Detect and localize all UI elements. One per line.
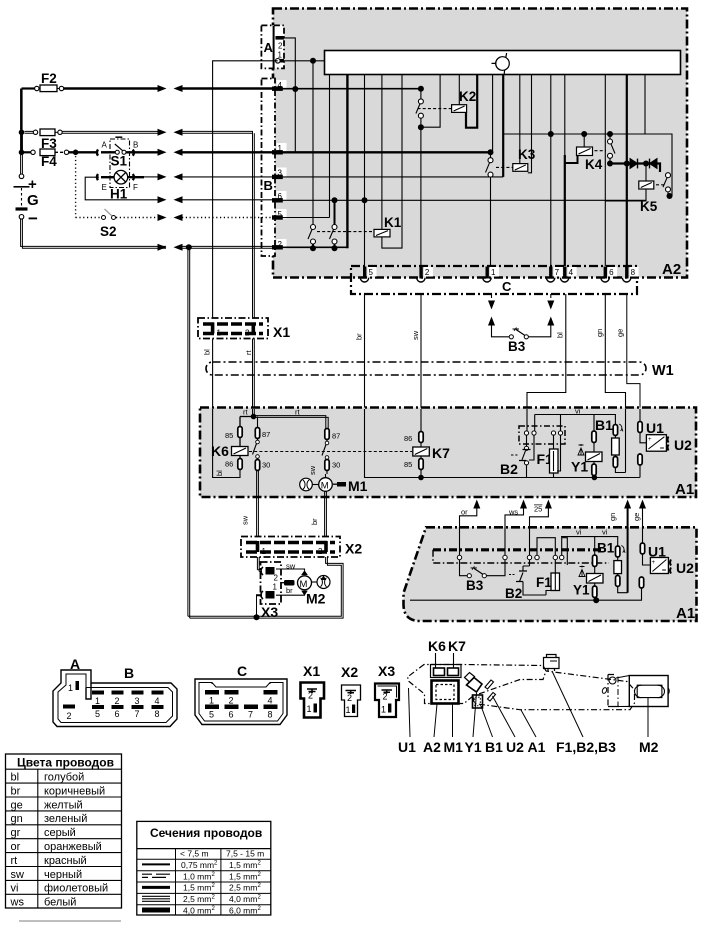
svg-text:7: 7 bbox=[135, 709, 140, 719]
svg-text:B: B bbox=[124, 665, 134, 681]
svg-text:2: 2 bbox=[308, 691, 313, 701]
wire r1 inside A2 (B4 row) bbox=[275, 88, 421, 90]
svg-text:Y1: Y1 bbox=[465, 739, 482, 755]
svg-text:2: 2 bbox=[274, 574, 279, 583]
K2 aux vertical bbox=[423, 75, 440, 128]
svg-text:G: G bbox=[27, 192, 39, 209]
pump M1 bbox=[300, 465, 368, 536]
svg-text:1: 1 bbox=[381, 705, 386, 715]
svg-text:br: br bbox=[355, 333, 364, 340]
internal rail (sedan A1) bbox=[433, 550, 609, 563]
wire A pin2 to r1 bbox=[275, 38, 295, 152]
S1 switch bbox=[97, 137, 158, 168]
ground bottom double line bbox=[188, 557, 343, 618]
svg-text:B3: B3 bbox=[508, 339, 526, 354]
svg-text:M: M bbox=[321, 481, 329, 492]
svg-text:2,5 mm: 2,5 mm bbox=[183, 894, 211, 904]
ECU block bbox=[432, 681, 459, 704]
relay K4 bbox=[577, 147, 593, 156]
diode 2 bbox=[650, 159, 658, 169]
fuse F1 (sedan) bbox=[536, 560, 560, 595]
svg-text:U2: U2 bbox=[676, 560, 694, 576]
relay K5 bbox=[644, 75, 646, 135]
fuse F4 bbox=[24, 149, 98, 169]
svg-text:4: 4 bbox=[155, 696, 160, 706]
wire r4 inside A2 (B3 row) bbox=[275, 176, 503, 178]
svg-text:красный: красный bbox=[44, 855, 87, 867]
svg-text:F1: F1 bbox=[536, 575, 552, 590]
Y1 shape bbox=[467, 678, 483, 693]
svg-text:1: 1 bbox=[346, 705, 351, 715]
connector face A/B bbox=[53, 656, 177, 727]
svg-text:2: 2 bbox=[67, 711, 72, 721]
connector C strip bbox=[351, 266, 637, 294]
svg-text:коричневый: коричневый bbox=[44, 785, 105, 797]
svg-text:B2: B2 bbox=[505, 586, 522, 601]
B1 shape bbox=[473, 695, 483, 708]
battery minus down and to r7 row bbox=[21, 219, 166, 248]
diagnostic symbol on bar bbox=[492, 53, 510, 74]
svg-text:4: 4 bbox=[569, 268, 574, 277]
svg-text:< 7,5 m: < 7,5 m bbox=[180, 849, 209, 859]
connector face X2 bbox=[341, 664, 361, 717]
svg-text:1: 1 bbox=[273, 583, 278, 592]
sensor B1 (sedan) bbox=[597, 541, 628, 593]
svg-text:белый: белый bbox=[44, 897, 76, 909]
bl wire from X1 to K6-86 bbox=[213, 409, 240, 478]
wire rt below X1 (double) bbox=[253, 339, 255, 417]
svg-text:gn: gn bbox=[608, 513, 617, 521]
transformer U1 / plug U2 bbox=[638, 409, 692, 478]
contact for M1 (driven with K7) bbox=[322, 429, 340, 475]
svg-text:X3: X3 bbox=[261, 604, 278, 620]
svg-text:4: 4 bbox=[268, 696, 273, 706]
svg-text:B1: B1 bbox=[485, 739, 503, 755]
br bottom row in A1 to K7 and Y1/U1 bbox=[365, 409, 640, 478]
svg-text:A: A bbox=[264, 40, 274, 55]
svg-text:K7: K7 bbox=[448, 638, 466, 654]
bracket outline bbox=[408, 665, 547, 704]
diode row bbox=[610, 164, 660, 173]
svg-text:85: 85 bbox=[225, 431, 233, 440]
switch S1 with lamp H1 boundary box bbox=[110, 139, 130, 188]
node r6 x364 bbox=[362, 197, 368, 203]
wire bl below X1 bbox=[212, 339, 214, 410]
K2 contact chain from r1 node to C pin2 bbox=[418, 86, 424, 92]
wire sections table bbox=[137, 821, 271, 915]
valve Y1 bbox=[571, 415, 602, 478]
diode 1 bbox=[630, 159, 638, 169]
svg-text:оранжевый: оранжевый bbox=[44, 841, 102, 853]
connector X1 bbox=[198, 318, 290, 340]
svg-text:X1: X1 bbox=[303, 663, 320, 679]
svg-text:U2: U2 bbox=[506, 739, 524, 755]
relay K7 bbox=[404, 409, 450, 478]
svg-text:F: F bbox=[133, 183, 138, 192]
C pins bbox=[363, 267, 639, 279]
sub connector in A1 (dash-dot) bbox=[519, 426, 565, 444]
svg-text:Цвета проводов: Цвета проводов bbox=[17, 756, 114, 770]
interlink arrows gn/ge thick bbox=[608, 500, 646, 593]
svg-text:B1: B1 bbox=[595, 417, 613, 433]
svg-text:B: B bbox=[264, 178, 273, 193]
svg-text:5: 5 bbox=[95, 709, 100, 719]
wire row r1 arrows bbox=[158, 85, 167, 92]
svg-text:1: 1 bbox=[217, 329, 222, 338]
svg-text:K7: K7 bbox=[432, 445, 450, 461]
svg-text:ge: ge bbox=[632, 513, 641, 521]
svg-text:B1: B1 bbox=[597, 541, 615, 556]
svg-text:8: 8 bbox=[631, 268, 636, 277]
wire row r6 arrows bbox=[158, 214, 167, 221]
svg-text:E: E bbox=[102, 183, 107, 192]
svg-text:фиолетовый: фиолетовый bbox=[44, 883, 108, 895]
svg-text:1,5 mm: 1,5 mm bbox=[183, 883, 211, 893]
svg-text:C: C bbox=[237, 663, 247, 679]
svg-text:U1: U1 bbox=[646, 420, 664, 436]
connector A (on A2 left border) bbox=[261, 25, 284, 68]
svg-text:vi: vi bbox=[576, 528, 582, 537]
U2 pointers bbox=[485, 680, 494, 689]
svg-text:6: 6 bbox=[115, 709, 120, 719]
svg-text:6,0 mm: 6,0 mm bbox=[229, 906, 257, 916]
vertical from A1row through B4row down to contact bbox=[312, 61, 314, 225]
fan motor M2 bbox=[276, 562, 330, 607]
wire sw from C2 down to A1 bbox=[420, 294, 422, 409]
B3 switch under C bbox=[488, 294, 554, 354]
svg-text:bl: bl bbox=[556, 332, 565, 338]
lamp H1 bbox=[97, 170, 144, 201]
svg-text:1: 1 bbox=[262, 547, 267, 556]
svg-text:sw: sw bbox=[241, 515, 250, 525]
vertical to C pin6 bbox=[604, 75, 606, 267]
svg-text:sw: sw bbox=[11, 869, 25, 881]
transformer U1 / plug U2 (sedan) bbox=[639, 543, 694, 595]
wire r5 inside A2 (B5 row) bbox=[275, 217, 329, 219]
svg-text:2: 2 bbox=[383, 692, 388, 702]
loops above rail right part bbox=[537, 538, 555, 555]
svg-text:A1: A1 bbox=[676, 605, 695, 622]
wire row r7 arrows bbox=[158, 244, 167, 251]
svg-text:gn: gn bbox=[595, 329, 604, 337]
wire r2 inside A2 (B2 row) bbox=[275, 246, 347, 248]
svg-text:sw: sw bbox=[308, 465, 317, 475]
svg-text:8: 8 bbox=[268, 710, 273, 720]
svg-text:K3: K3 bbox=[518, 147, 536, 162]
svg-text:K5: K5 bbox=[640, 199, 658, 214]
ground row (sedan) bbox=[410, 595, 642, 600]
wire row r5 arrows bbox=[158, 196, 167, 203]
svg-text:4,0 mm: 4,0 mm bbox=[229, 894, 257, 904]
rt feed row inside A1 bbox=[253, 409, 255, 416]
relay K6 with terminals 85/86 bbox=[211, 417, 248, 470]
svg-text:серый: серый bbox=[44, 827, 76, 839]
svg-text:M1: M1 bbox=[444, 739, 464, 755]
svg-text:vi: vi bbox=[11, 883, 19, 895]
svg-text:87: 87 bbox=[262, 430, 270, 439]
svg-text:6: 6 bbox=[609, 268, 614, 277]
svg-text:F1,B2,B3: F1,B2,B3 bbox=[556, 739, 616, 755]
wire ge from C8 down, jog right into A1 bbox=[627, 294, 640, 409]
svg-text:6: 6 bbox=[278, 192, 283, 201]
svg-text:S2: S2 bbox=[100, 224, 117, 239]
wire gn from C6 down, jog right into A1 bbox=[605, 294, 625, 409]
svg-text:X2: X2 bbox=[345, 541, 362, 557]
svg-text:86: 86 bbox=[225, 460, 233, 469]
connector X3 bbox=[257, 557, 282, 620]
wire bl from C4 down, jog left into A1 bbox=[527, 294, 566, 409]
svg-text:1,5 mm: 1,5 mm bbox=[229, 871, 257, 881]
svg-text:K1: K1 bbox=[384, 215, 402, 230]
C pin bumps on gray lower edge bbox=[360, 278, 631, 282]
svg-text:2: 2 bbox=[347, 693, 352, 703]
wire from A pin1 left then down to X1 pin1 bbox=[213, 61, 278, 318]
svg-text:2: 2 bbox=[229, 696, 234, 706]
vertical to C pin4 bbox=[564, 75, 566, 156]
K6 contact (to X2.1) bbox=[253, 416, 271, 536]
vertical to C pin7 bbox=[550, 75, 552, 267]
B2 temp switch (sedan) bbox=[505, 560, 546, 601]
svg-text:8: 8 bbox=[155, 709, 160, 719]
svg-text:0,75 mm: 0,75 mm bbox=[181, 860, 214, 870]
wire row r3 arrows bbox=[158, 149, 167, 156]
svg-text:+: + bbox=[648, 437, 652, 443]
svg-text:K4: K4 bbox=[585, 157, 603, 172]
node A2->r1 bbox=[292, 86, 298, 92]
switch S2 (dotted wire) bbox=[76, 152, 160, 239]
svg-text:7,5 - 15 m: 7,5 - 15 m bbox=[226, 849, 264, 859]
harness W1 bbox=[206, 362, 646, 375]
svg-text:2: 2 bbox=[278, 42, 283, 51]
svg-text:X2: X2 bbox=[341, 664, 358, 680]
svg-text:зеленый: зеленый bbox=[44, 813, 87, 825]
svg-text:sw: sw bbox=[411, 330, 420, 340]
svg-text:U1: U1 bbox=[398, 739, 416, 755]
svg-text:gn: gn bbox=[11, 813, 23, 825]
svg-text:3: 3 bbox=[135, 696, 140, 706]
svg-text:4,0 mm: 4,0 mm bbox=[183, 906, 211, 916]
svg-text:Сечения проводов: Сечения проводов bbox=[150, 826, 262, 840]
svg-text:ge: ge bbox=[616, 329, 625, 337]
wire A pin1 row to bar bbox=[280, 60, 325, 62]
leader lines bbox=[409, 688, 411, 737]
wire r6 inside A2 (B6 row) bbox=[275, 199, 646, 201]
dots row feeding K4/K5 bbox=[503, 134, 672, 173]
control unit A1 enclosure (wagon version) bbox=[200, 408, 696, 498]
vertical bar to C pin5 bbox=[364, 75, 366, 267]
svg-text:br: br bbox=[11, 785, 21, 797]
fuse F3 bbox=[25, 129, 161, 151]
svg-text:2: 2 bbox=[425, 268, 430, 277]
svg-text:5: 5 bbox=[209, 710, 214, 720]
svg-text:+: + bbox=[28, 176, 37, 193]
svg-text:2,5 mm: 2,5 mm bbox=[229, 883, 257, 893]
svg-text:A: A bbox=[102, 141, 108, 150]
svg-text:30: 30 bbox=[332, 461, 340, 470]
wire row r4 arrows bbox=[158, 173, 167, 180]
svg-text:M2: M2 bbox=[306, 591, 326, 607]
svg-text:vi: vi bbox=[602, 528, 608, 537]
svg-text:1: 1 bbox=[95, 696, 100, 706]
svg-text:1: 1 bbox=[307, 704, 312, 714]
vertical bar stub 1 bbox=[329, 75, 331, 218]
svg-text:bl: bl bbox=[215, 470, 224, 476]
contact 2 of K1 bbox=[330, 200, 338, 247]
svg-text:M: M bbox=[300, 579, 308, 590]
M2 location drawing bbox=[601, 675, 669, 756]
K4 contact bbox=[608, 134, 616, 164]
battery G bbox=[14, 174, 39, 228]
wire colors table bbox=[6, 754, 122, 921]
svg-text:or: or bbox=[11, 841, 21, 853]
svg-text:25: 25 bbox=[534, 505, 542, 514]
svg-text:+: + bbox=[652, 560, 656, 566]
temperature switch B2 bbox=[500, 435, 534, 478]
svg-text:U2: U2 bbox=[674, 437, 692, 453]
svg-text:Y1: Y1 bbox=[573, 583, 590, 598]
left feed vertical (battery + up to F2 row) bbox=[21, 89, 23, 175]
svg-text:W1: W1 bbox=[652, 363, 674, 379]
svg-text:⋍: ⋍ bbox=[662, 568, 667, 574]
r2 (rt) double line down to X1 pin 2 bbox=[253, 131, 255, 318]
H1 E-side loop to r5 bbox=[85, 177, 160, 200]
svg-text:bl: bl bbox=[203, 349, 212, 355]
svg-text:A2: A2 bbox=[423, 739, 441, 755]
connector X2 bbox=[241, 537, 362, 558]
svg-text:7: 7 bbox=[248, 710, 253, 720]
svg-text:3: 3 bbox=[278, 169, 283, 178]
wire row r2 arrows bbox=[158, 129, 167, 136]
B3 switch (sedan) bbox=[460, 560, 506, 593]
svg-text:1,0 mm: 1,0 mm bbox=[183, 871, 211, 881]
svg-text:85: 85 bbox=[404, 460, 412, 469]
fuse F1 bbox=[537, 435, 561, 478]
svg-text:−: − bbox=[28, 209, 38, 228]
connector face X1 bbox=[301, 663, 325, 718]
ECU white bar inside A2 bbox=[325, 51, 681, 75]
svg-text:A1: A1 bbox=[528, 739, 546, 755]
svg-text:gr: gr bbox=[11, 827, 21, 839]
svg-text:1: 1 bbox=[491, 268, 496, 277]
svg-text:X1: X1 bbox=[273, 324, 290, 340]
K1 coil wires bbox=[382, 75, 402, 249]
control unit A2 enclosure bbox=[273, 9, 687, 278]
svg-text:1: 1 bbox=[209, 696, 214, 706]
svg-text:2: 2 bbox=[318, 547, 323, 556]
svg-text:87: 87 bbox=[332, 432, 340, 441]
fuse F2 bbox=[22, 71, 161, 92]
svg-text:B: B bbox=[133, 141, 138, 150]
wire br from C5 down to A1 bbox=[364, 294, 366, 409]
svg-text:X3: X3 bbox=[378, 663, 395, 679]
valve Y1 (sedan) bbox=[573, 537, 603, 601]
wire r3 inside A2 thick (B1 row) bbox=[275, 151, 490, 153]
svg-text:K2: K2 bbox=[459, 89, 476, 104]
svg-text:rt: rt bbox=[11, 855, 18, 867]
svg-text:S1: S1 bbox=[111, 154, 128, 169]
svg-text:6: 6 bbox=[229, 710, 234, 720]
svg-text:M1: M1 bbox=[348, 478, 368, 494]
actuating dashed line K6/K7 bbox=[249, 451, 412, 453]
connector face X3 bbox=[375, 663, 399, 717]
svg-text:желтый: желтый bbox=[44, 799, 83, 811]
svg-text:ws: ws bbox=[10, 897, 25, 909]
svg-text:A2: A2 bbox=[662, 261, 681, 278]
svg-text:5: 5 bbox=[369, 268, 374, 277]
svg-text:2: 2 bbox=[245, 329, 250, 338]
svg-text:K6: K6 bbox=[211, 443, 229, 459]
svg-text:bl: bl bbox=[11, 772, 20, 784]
svg-text:M2: M2 bbox=[639, 739, 659, 755]
node on A1 row bbox=[310, 58, 316, 64]
thick vertical to C pin8 bbox=[626, 75, 628, 267]
svg-text:or: or bbox=[461, 508, 468, 517]
K3 contact from r3 to C pin1 bbox=[488, 149, 494, 155]
ground double line from r7 down left side bbox=[188, 247, 190, 618]
svg-text:A1: A1 bbox=[675, 481, 694, 498]
svg-text:86: 86 bbox=[404, 434, 412, 443]
K6/K7 location drawing bbox=[398, 638, 635, 755]
svg-text:2: 2 bbox=[115, 696, 120, 706]
svg-text:⋍: ⋍ bbox=[660, 446, 665, 452]
svg-text:черный: черный bbox=[44, 869, 82, 881]
svg-text:rt: rt bbox=[244, 350, 253, 355]
control unit A1 enclosure (sedan version) bbox=[404, 527, 697, 621]
svg-text:1: 1 bbox=[68, 683, 73, 693]
interlink arrows or/ws bbox=[460, 500, 552, 558]
thick vertical bar to r2 bbox=[346, 75, 348, 249]
svg-text:B2: B2 bbox=[500, 461, 518, 477]
svg-text:B3: B3 bbox=[466, 578, 484, 593]
thick vertical to r4 end bbox=[502, 75, 504, 177]
svg-text:голубой: голубой bbox=[44, 772, 84, 784]
svg-text:br: br bbox=[286, 586, 293, 595]
svg-text:1,5 mm: 1,5 mm bbox=[229, 860, 257, 870]
connector B (on A2 left border) bbox=[262, 79, 287, 257]
svg-text:7: 7 bbox=[555, 268, 560, 277]
svg-text:K6: K6 bbox=[428, 638, 446, 654]
F1,B2,B3 connector at top right bbox=[544, 655, 560, 672]
contact 1 of K1 bbox=[308, 225, 316, 248]
svg-text:C: C bbox=[502, 279, 512, 294]
svg-text:ge: ge bbox=[11, 799, 23, 811]
svg-text:F2: F2 bbox=[41, 71, 57, 86]
svg-text:30: 30 bbox=[262, 461, 270, 470]
sensor B1 bbox=[595, 409, 626, 473]
connector face C bbox=[195, 663, 287, 725]
svg-text:br: br bbox=[310, 518, 319, 525]
